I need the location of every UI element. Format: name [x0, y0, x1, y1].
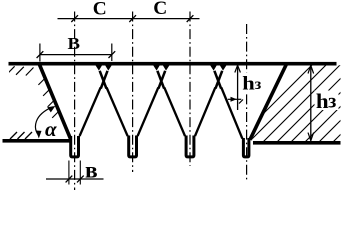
right hatching: [232, 55, 342, 145]
borehole 2 neck: [129, 136, 137, 157]
B dim tick right: [109, 51, 116, 58]
B extension line right: [111, 44, 113, 62]
svg-text:α: α: [45, 117, 57, 141]
left slope (funnel 1 left edge): [39, 63, 71, 139]
svg-text:в: в: [85, 158, 98, 184]
white backing for h_z label: [242, 73, 262, 92]
svg-text:з: з: [328, 91, 336, 113]
в dimension line: [46, 178, 104, 180]
funnel 2 left edge: [107, 88, 128, 137]
C dim tick at c2: [129, 15, 136, 22]
borehole 3 centerline: [189, 12, 191, 167]
в extension line left: [68, 161, 70, 185]
svg-text:h: h: [242, 75, 255, 95]
в extension line right: [79, 161, 81, 185]
svg-text:h: h: [316, 89, 329, 113]
h_z top arrowhead: [235, 65, 241, 72]
left hatching above bench line: [10, 132, 32, 139]
alpha arrow bottom: [36, 131, 42, 139]
svg-text:C: C: [153, 0, 167, 19]
h3 bottom arrowhead: [308, 133, 314, 141]
h3 top arrowhead: [308, 65, 314, 73]
alpha arrow top: [47, 106, 55, 112]
funnel 2 right edge: [138, 88, 159, 137]
borehole 1 neck: [71, 136, 79, 157]
B dim tick left: [37, 51, 44, 58]
B extension line left: [39, 44, 41, 62]
right slope (funnel 4 right edge): [250, 63, 287, 140]
borehole 2 centerline: [132, 12, 134, 173]
charge cross X2: [157, 71, 165, 89]
h3 dimension vertical line (bench height): [310, 65, 312, 141]
funnel 1 right edge: [80, 88, 101, 137]
funnel 4 left edge: [221, 88, 242, 139]
right bench floor line: [253, 141, 341, 145]
charge cross X1: [100, 71, 108, 89]
alpha angle arc: [36, 107, 53, 136]
svg-text:з: з: [255, 76, 262, 93]
svg-text:C: C: [93, 0, 107, 19]
borehole 1 centerline: [74, 12, 76, 191]
borehole 4 centerline: [246, 24, 248, 181]
borehole 3 neck: [186, 136, 194, 157]
charge cross X3: [214, 71, 222, 89]
white backing for h3 label: [315, 91, 339, 111]
ground surface line: [9, 62, 337, 66]
h_z bottom tick: [239, 100, 243, 104]
в dim tick left: [66, 176, 73, 183]
left hatching: [7, 66, 60, 118]
C dimension line: [58, 18, 200, 20]
C dim tick at c3: [187, 15, 194, 22]
svg-text:B: B: [68, 34, 81, 53]
C dim tick at c1: [71, 15, 78, 22]
h_z bottom reference line with arrow: [228, 98, 242, 100]
borehole 4 neck: [243, 138, 249, 157]
funnel 3 left edge: [164, 88, 185, 137]
B dimension line: [40, 54, 112, 56]
в dim tick right: [77, 176, 84, 183]
left bench floor line: [3, 139, 71, 143]
h_z dimension vertical line (charge depth): [237, 65, 239, 110]
funnel 3 right edge: [195, 88, 215, 137]
